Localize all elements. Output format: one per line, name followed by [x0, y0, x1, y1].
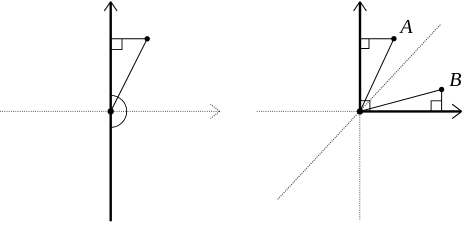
- dotted horizontal line left of origin: [257, 110, 358, 112]
- dotted horizontal axis (left diagram): [0, 110, 220, 112]
- upper point (left diagram): [145, 36, 150, 41]
- right-angle square at axis (left diagram): [111, 39, 122, 50]
- origin point (right diagram): [357, 108, 363, 114]
- vertical segment from point B to axis: [441, 90, 443, 112]
- dotted diagonal line: [278, 25, 441, 200]
- svg-text:B: B: [449, 69, 461, 91]
- point B: [439, 87, 444, 92]
- arrowhead of horizontal axis (right diagram): [452, 104, 462, 118]
- horizontal axis (right diagram): [360, 110, 461, 112]
- segment from origin to point B: [360, 90, 442, 112]
- vertical axis (left diagram): [109, 2, 111, 221]
- vertical axis (right diagram): [359, 2, 361, 111]
- horizontal segment from axis to point A: [360, 38, 394, 40]
- arrowhead of vertical axis (right diagram): [354, 2, 367, 12]
- right-angle square below segment at axis (A): [360, 39, 369, 49]
- arrowhead of vertical axis (left diagram): [104, 2, 117, 12]
- horizontal segment from axis to upper point (left diagram): [111, 38, 148, 40]
- dotted arrowhead (left diagram horizontal axis): [211, 104, 220, 118]
- svg-text:A: A: [398, 16, 413, 38]
- right-angle square at origin (right diagram): [360, 101, 370, 112]
- dotted vertical line below origin: [359, 113, 361, 221]
- angle arc around origin (left diagram): [111, 95, 127, 127]
- point A: [391, 36, 396, 41]
- segment from origin to point A: [360, 39, 394, 112]
- origin point (left diagram): [108, 108, 114, 114]
- right-angle square at axis (B): [431, 101, 442, 112]
- segment from origin to upper point (left diagram): [111, 39, 148, 112]
